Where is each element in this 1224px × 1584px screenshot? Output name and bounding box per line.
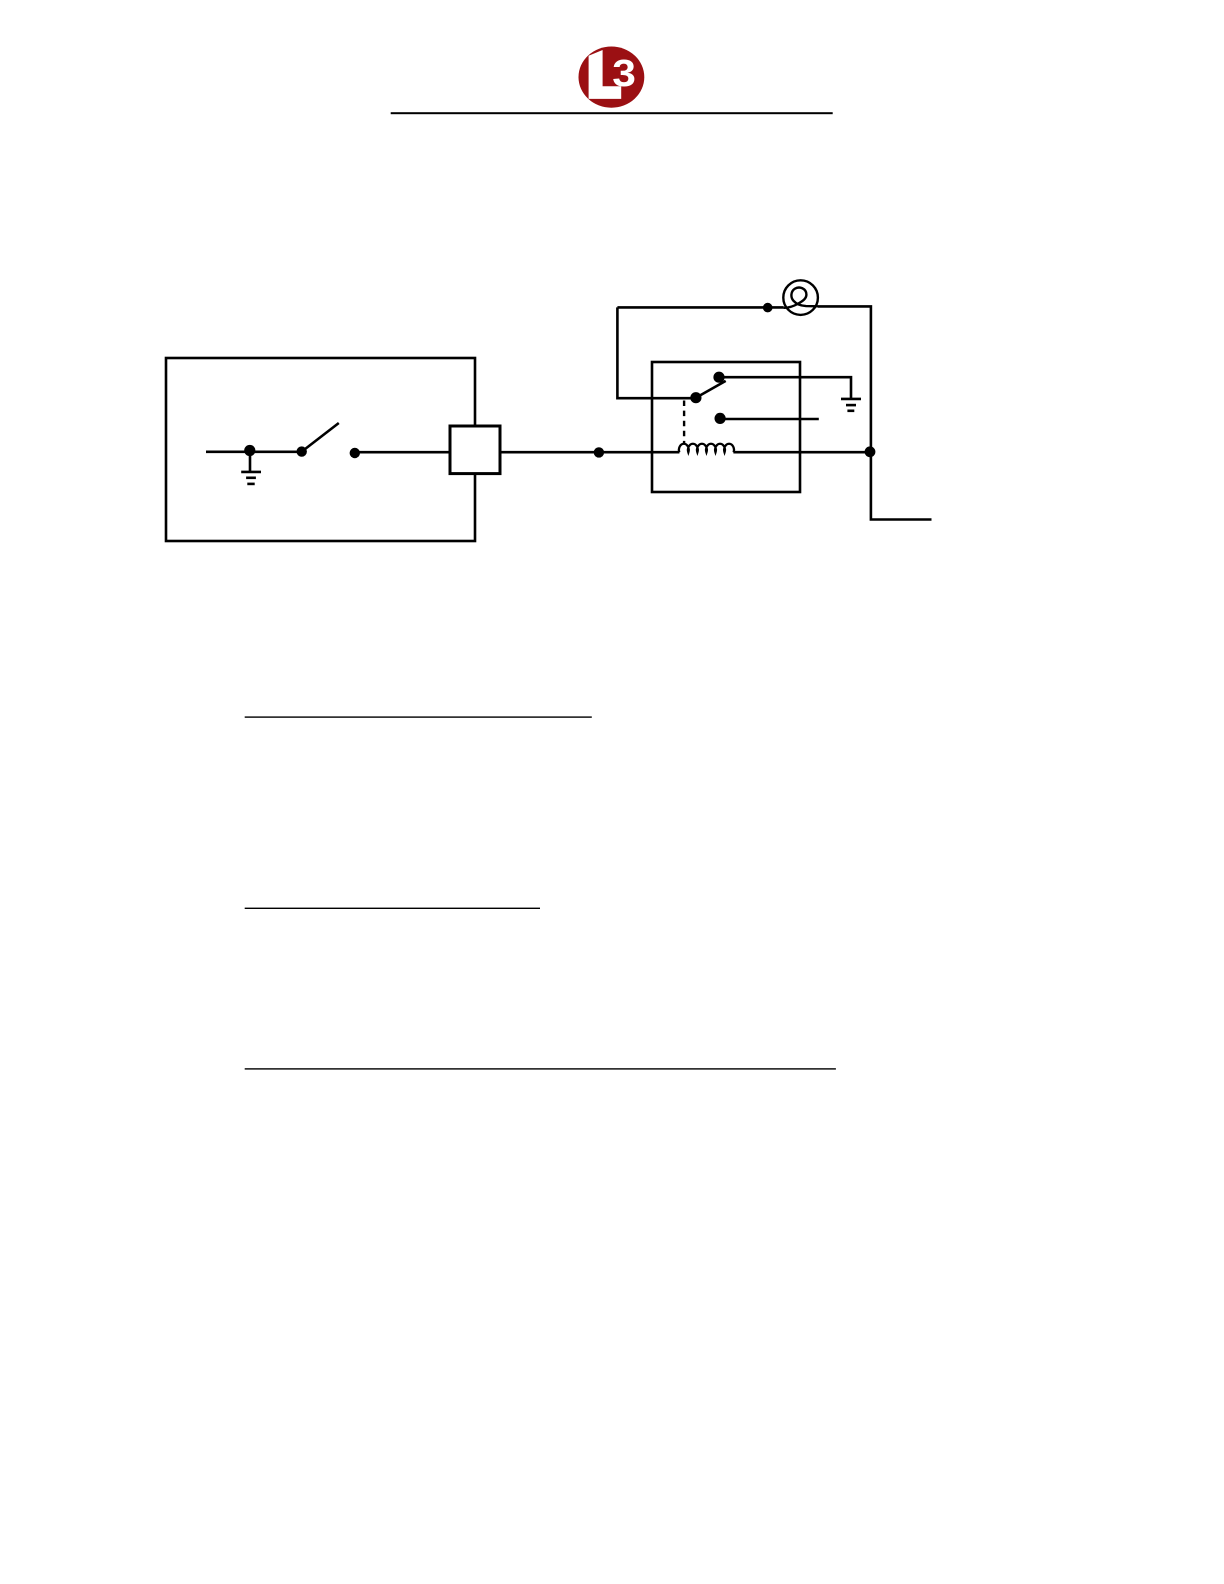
left enclosure box bbox=[166, 358, 475, 541]
wire: upper contact to ground G2 bbox=[719, 377, 851, 399]
node dot: ground tap bbox=[244, 445, 255, 456]
blank heading underline 2 bbox=[245, 908, 540, 909]
ground G1 bar3 bbox=[247, 483, 254, 486]
ground G2 bar3 bbox=[847, 409, 854, 412]
L3 logo circle bbox=[579, 47, 645, 108]
lamp filament loop bbox=[784, 288, 818, 308]
relay armature blade bbox=[696, 381, 726, 398]
node dot: right node bbox=[865, 446, 876, 457]
lamp DS1 circle bbox=[783, 280, 818, 315]
wire: square to relay box bbox=[500, 451, 679, 454]
ground G1 stem bbox=[249, 452, 252, 472]
node dot: switch pivot bbox=[297, 446, 307, 456]
ground G1 bar2 bbox=[246, 476, 256, 479]
wire: lower contact stub bbox=[720, 418, 819, 421]
wire: left stub to switch pivot bbox=[206, 450, 302, 453]
node dot: switch throw bbox=[350, 448, 360, 458]
relay box K1 bbox=[652, 362, 800, 492]
node dot: relay armature bbox=[690, 392, 701, 403]
blank heading underline 3 bbox=[245, 1068, 836, 1069]
ground G1 bar1 bbox=[241, 471, 261, 474]
wire: node down and right tail bbox=[871, 452, 932, 519]
connector square J1 bbox=[450, 426, 500, 474]
wire: switch throw to connector square bbox=[355, 451, 450, 454]
node dot: lamp feed bbox=[763, 303, 773, 313]
wire: top run to lamp bbox=[617, 306, 783, 309]
wire: left vert of lamp loop bbox=[617, 307, 696, 398]
dashed link coil to armature bbox=[683, 401, 685, 444]
header rule bbox=[391, 112, 833, 114]
ground G2 bar1 bbox=[841, 398, 861, 401]
node dot: relay upper contact bbox=[713, 372, 724, 383]
L3 logo letter L bbox=[589, 50, 622, 99]
wire: coil to right node bbox=[733, 451, 870, 454]
wire: lamp to right corner bbox=[818, 306, 871, 452]
svg-text:3: 3 bbox=[612, 51, 636, 94]
switch S1 blade bbox=[302, 423, 339, 452]
blank heading underline 1 bbox=[245, 716, 592, 717]
node dot: mid wire bbox=[594, 447, 604, 457]
node dot: relay lower contact bbox=[715, 413, 726, 424]
relay coil bbox=[679, 444, 734, 453]
ground G2 bar2 bbox=[846, 404, 856, 407]
